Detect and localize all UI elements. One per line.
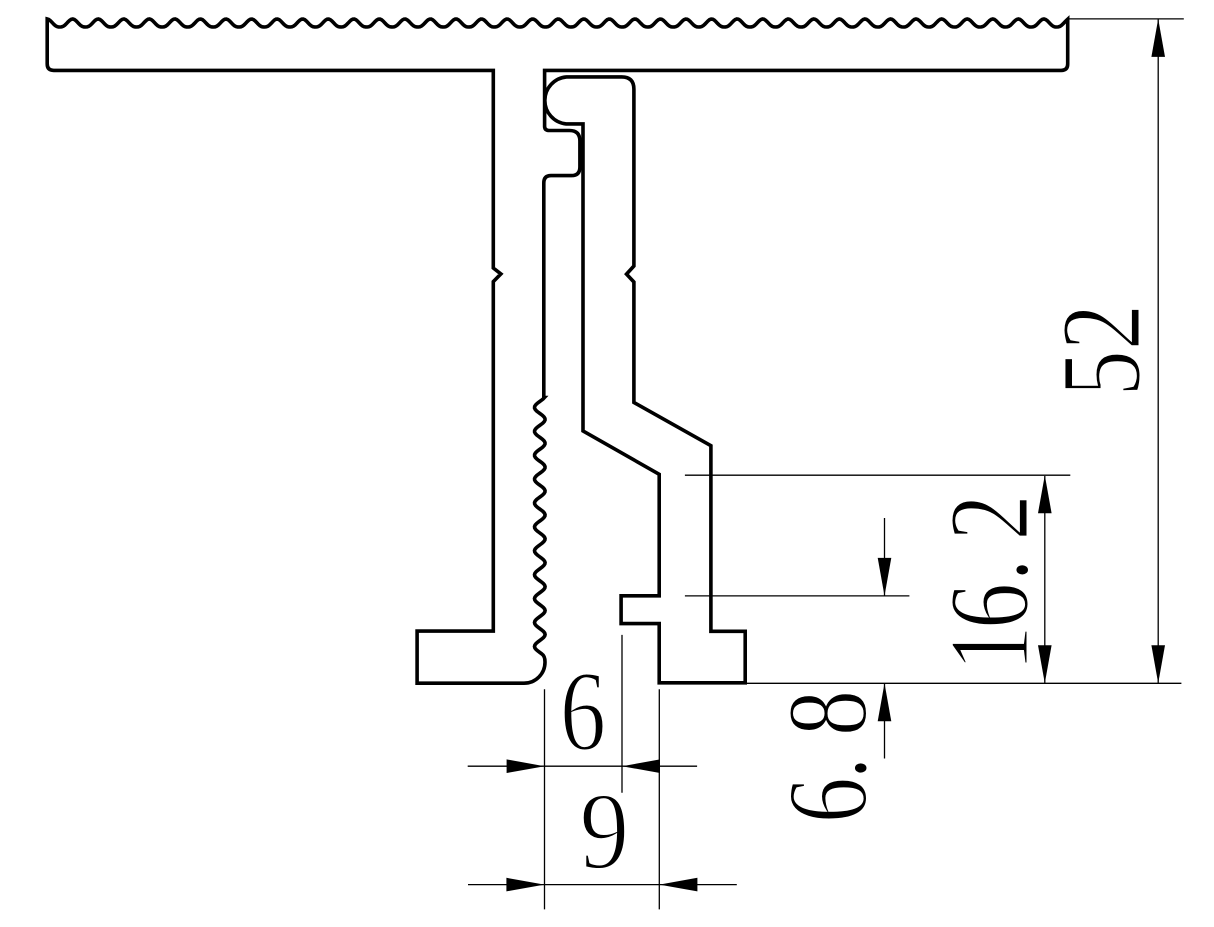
svg-text:.: .	[766, 756, 891, 779]
svg-text:8: 8	[766, 690, 891, 736]
svg-text:2: 2	[927, 494, 1052, 540]
svg-text:2: 2	[1039, 304, 1164, 350]
svg-text:5: 5	[1039, 350, 1164, 396]
svg-text:6: 6	[766, 777, 891, 823]
svg-text:9: 9	[580, 770, 629, 892]
svg-text:6: 6	[927, 583, 1052, 629]
svg-text:6: 6	[560, 649, 606, 774]
svg-text:.: .	[927, 558, 1052, 581]
svg-text:1: 1	[927, 625, 1052, 671]
